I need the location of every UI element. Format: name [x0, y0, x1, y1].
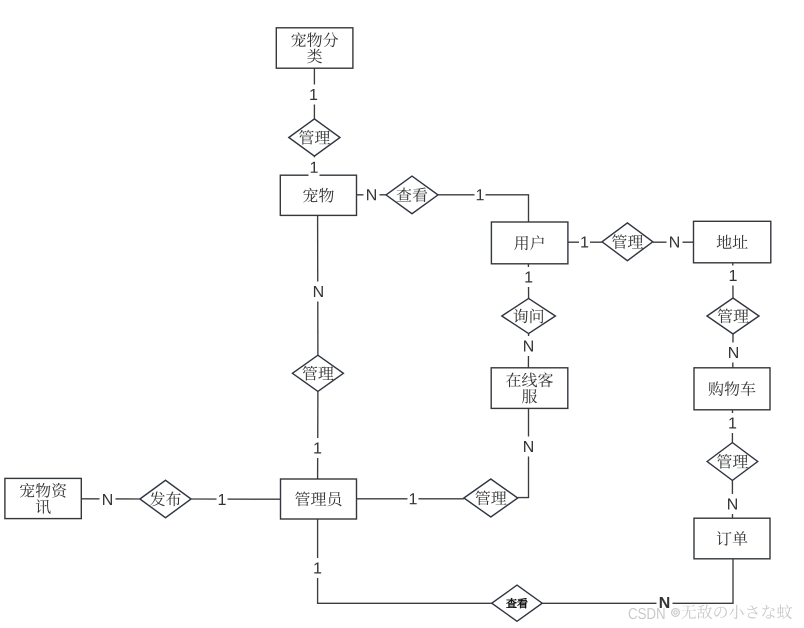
label N (查看-订单): [657, 593, 673, 613]
wire 管理-管理员: [317, 391, 319, 479]
wire 地址-管理: [732, 263, 734, 298]
label 1 (用户-管理): [579, 232, 590, 252]
relationship 管理 (宠物-管理员): [292, 355, 343, 391]
label 1 (购物车-管理): [727, 413, 738, 433]
wire 在线客服-管理 (elbow): [518, 408, 529, 497]
wire 管理员-查看 (elbow): [318, 519, 492, 603]
label N (管理-购物车): [726, 343, 742, 363]
label N (宠物-查看): [364, 185, 380, 205]
wire 管理-订单: [731, 480, 733, 518]
entity 购物车: [694, 368, 770, 410]
wire 发布-管理员: [191, 498, 280, 500]
label N (在线客服-管理): [521, 437, 537, 457]
wire 查看-订单 (elbow): [542, 559, 733, 604]
wire 管理-地址: [653, 241, 694, 243]
watermark CSDN @无敌の小さな蚊: [629, 604, 792, 619]
wire 购物车-管理: [731, 410, 733, 443]
label N (宠物-管理): [310, 282, 326, 302]
relationship 询问 (用户-在线客服): [502, 298, 556, 333]
label 1 (查看-用户): [475, 185, 486, 205]
entity 宠物分类: [276, 28, 353, 68]
wire 宠物-管理: [317, 215, 319, 355]
wire 管理-购物车: [732, 334, 734, 368]
label 1 (管理-管理员): [312, 438, 323, 458]
entity 订单: [694, 518, 770, 559]
wire 宠物资讯-发布: [81, 498, 140, 500]
wire 管理-宠物: [313, 156, 315, 175]
label 1 (管理员-查看): [312, 558, 323, 578]
label 1 (用户-询问): [523, 267, 534, 287]
entity 宠物资讯: [5, 478, 81, 518]
label N (管理-地址): [667, 232, 683, 252]
relationship 管理 (购物车-订单): [707, 443, 758, 481]
label N (询问-在线客服): [521, 336, 537, 356]
entity 在线客服: [491, 368, 568, 409]
relationship 管理 (地址-购物车): [707, 298, 759, 334]
wire 查看-用户 (elbow): [438, 195, 529, 222]
entity 宠物: [280, 175, 356, 215]
wire 宠物分类-管理: [313, 68, 315, 119]
label 1 (宠物分类-管理): [308, 85, 319, 105]
wire 管理员-管理: [357, 498, 464, 500]
relationship 管理 (用户-地址): [602, 223, 653, 261]
entity 用户: [491, 222, 568, 264]
entity 地址: [694, 221, 771, 262]
label 1 (发布-管理员): [217, 490, 228, 510]
label 1 (管理-宠物): [309, 157, 320, 177]
entity 管理员: [281, 479, 357, 519]
label N (宠物资讯-发布): [100, 490, 116, 510]
wire 宠物-查看: [357, 194, 387, 196]
wire 询问-在线客服: [527, 334, 529, 368]
wire 用户-询问: [527, 264, 529, 299]
label N (管理-订单): [725, 494, 741, 514]
relationship 管理 (宠物分类-宠物): [289, 119, 340, 156]
wire 用户-管理: [568, 241, 602, 243]
label 1 (管理员-管理): [408, 489, 419, 509]
relationship 管理 (管理员-在线客服): [464, 479, 518, 517]
relationship 查看 (管理员-订单): [492, 585, 542, 621]
relationship 发布 (宠物资讯-管理员): [140, 480, 191, 517]
relationship 查看 (宠物-用户): [386, 176, 438, 214]
label 1 (地址-管理): [728, 266, 739, 286]
